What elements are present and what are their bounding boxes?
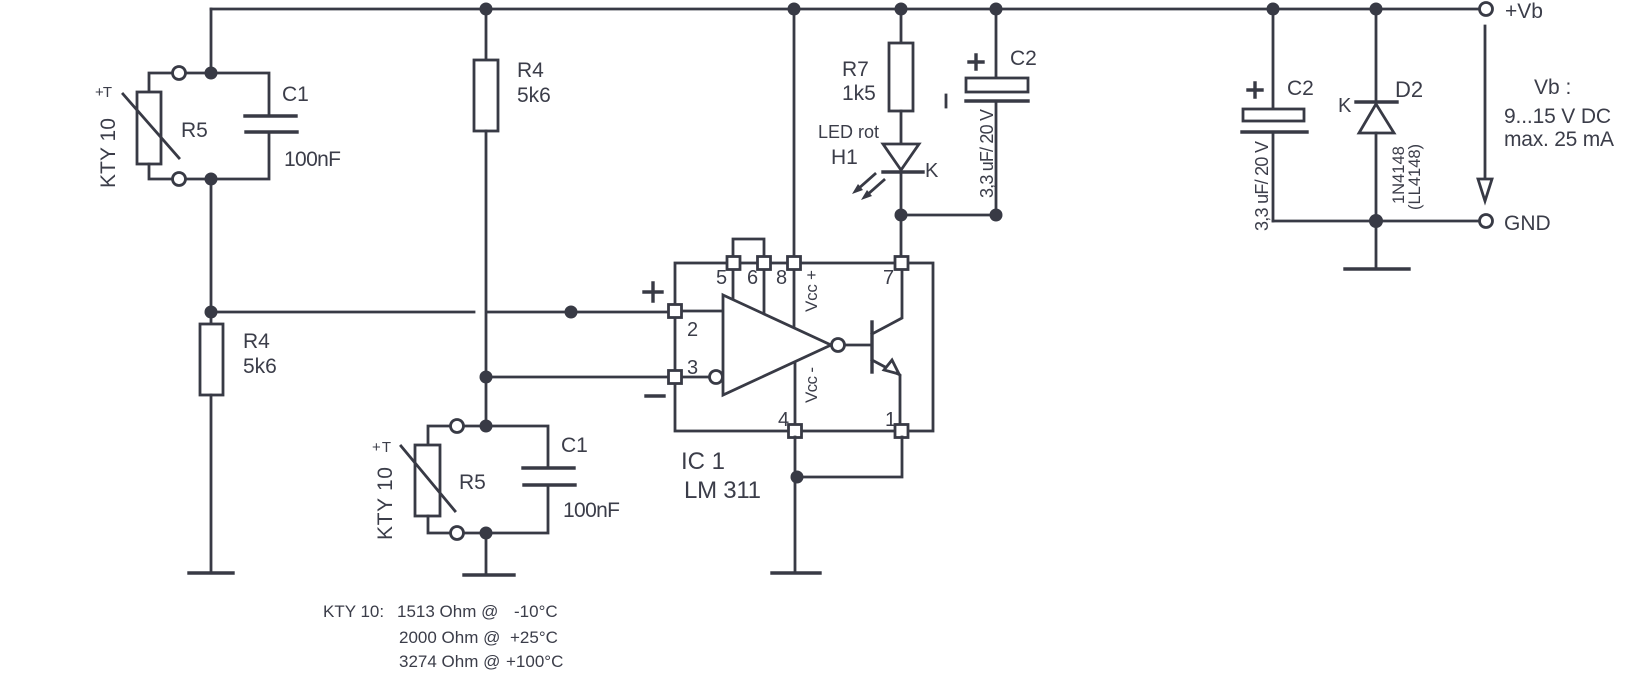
svg-text:2000 Ohm @: 2000 Ohm @	[399, 628, 500, 647]
wire strap pins 5-6	[733, 239, 764, 256]
wire R5 (2) bottom connection	[428, 516, 480, 533]
wire LED to node	[900, 172, 903, 215]
wire node to C2a bottom	[901, 214, 996, 217]
plus sign non-inverting	[644, 283, 662, 301]
label 3274 Ohm @	[399, 652, 500, 671]
svg-text:+25°C: +25°C	[510, 628, 558, 647]
node LED / pin 7	[895, 209, 908, 222]
node sensor 2 bottom	[480, 527, 493, 540]
plus sign C2b	[1248, 83, 1262, 97]
label 5k6 (lower left)	[243, 355, 277, 378]
output circle	[832, 339, 845, 352]
current direction arrow	[1478, 26, 1492, 201]
diode D2	[1356, 102, 1397, 221]
wire pin 2 to comparator input	[681, 310, 723, 313]
wire node to pin 7	[900, 215, 903, 256]
terminal GND	[1480, 215, 1493, 228]
svg-text:3,3 uF/ 20 V: 3,3 uF/ 20 V	[1252, 141, 1272, 231]
node sensor 2 top	[480, 420, 493, 433]
svg-text:+T: +T	[95, 84, 112, 101]
pin square 6	[758, 257, 771, 270]
wire +Vb top rail	[211, 8, 1480, 11]
svg-text:2: 2	[687, 319, 698, 341]
node GND D2	[1369, 214, 1383, 228]
wire pin 8 stub (Vcc+)	[793, 269, 796, 329]
terminal circle R5 (2) top	[451, 420, 464, 433]
label max. 25 mA	[1504, 128, 1614, 151]
wire from rail down to R5 top node	[210, 9, 213, 73]
emitter arrow	[884, 360, 899, 374]
label K (diode cathode)	[1338, 95, 1352, 117]
svg-text:R5: R5	[459, 471, 486, 494]
label D2	[1395, 77, 1423, 102]
input circle pin 3	[710, 371, 723, 384]
wire GND rail	[1273, 220, 1480, 223]
label C1 (left)	[282, 83, 309, 106]
svg-text:1k5: 1k5	[842, 82, 876, 105]
node R5 bottom	[205, 173, 218, 186]
wire pin 5 stub	[732, 269, 735, 300]
svg-text:R4: R4	[517, 59, 544, 82]
wire rail to R7	[900, 9, 903, 43]
svg-text:H1: H1	[831, 146, 858, 169]
svg-text:1513 Ohm @: 1513 Ohm @	[397, 602, 498, 621]
resistor R5 (KTY 10 sensor, left)	[123, 92, 179, 164]
svg-text:3,3 uF/ 20 V: 3,3 uF/ 20 V	[977, 109, 997, 198]
svg-text:max. 25 mA: max. 25 mA	[1504, 128, 1614, 151]
svg-text:+100°C: +100°C	[506, 652, 563, 671]
minus sign inverting	[646, 394, 664, 397]
svg-text:C1: C1	[282, 83, 309, 106]
svg-text:LED rot: LED rot	[818, 122, 879, 142]
transistor emitter to pin 1	[872, 360, 900, 425]
LED light arrow 1	[852, 174, 875, 194]
wire to pin 2 (with crossover gap)	[211, 311, 669, 314]
svg-text:C2: C2	[1287, 77, 1314, 100]
svg-text:KTY 10: KTY 10	[374, 467, 397, 540]
label KTY 10: table	[323, 602, 384, 621]
wire pin 1 to ground node	[795, 437, 902, 477]
svg-text:K: K	[1338, 95, 1352, 117]
wire rail to C2a	[995, 9, 998, 78]
wire pin 8 to +Vb rail	[793, 9, 796, 256]
node rail R7	[895, 3, 908, 16]
svg-text:K: K	[925, 160, 939, 182]
pin number 1	[885, 409, 896, 431]
capacitor C1 (left)	[211, 73, 297, 179]
pin square 3	[669, 371, 682, 384]
label C2 (right)	[1287, 77, 1314, 100]
svg-text:7: 7	[883, 267, 894, 289]
label 3,3 uF/ 20 V (right, rotated)	[1252, 141, 1272, 231]
node top rail R4 upper	[480, 3, 493, 16]
node rail pin 8	[788, 3, 801, 16]
label 100nF (left)	[284, 148, 341, 171]
svg-text:(LL4148): (LL4148)	[1406, 144, 1424, 210]
svg-text:KTY 10:: KTY 10:	[323, 602, 384, 621]
label 2000 Ohm @	[399, 628, 500, 647]
label C1 (middle)	[561, 434, 588, 457]
resistor R7	[889, 43, 913, 111]
label +Vb	[1505, 0, 1543, 23]
wire rail to D2	[1375, 9, 1378, 102]
pin number 5	[716, 267, 727, 289]
svg-text:IC 1: IC 1	[681, 448, 725, 475]
ground (middle sensor)	[464, 573, 514, 576]
wire D2 to ground	[1375, 221, 1378, 269]
label GND	[1504, 212, 1551, 235]
svg-text:3274 Ohm @: 3274 Ohm @	[399, 652, 500, 671]
svg-text:1: 1	[885, 409, 896, 431]
LED H1	[883, 144, 923, 172]
capacitor C2 (middle, electrolytic)	[966, 78, 1028, 215]
node rail C2a	[990, 3, 1003, 16]
wire to pin 3	[486, 376, 669, 379]
wire left node down to divider	[210, 179, 213, 324]
wire R5 bottom connection	[149, 164, 205, 179]
plus sign C2a	[969, 55, 983, 69]
wire pin 3 to input circle	[681, 376, 710, 379]
svg-text:GND: GND	[1504, 212, 1551, 235]
ground (right)	[1345, 267, 1409, 270]
wire pin 4 to ground	[794, 437, 797, 573]
pin number 4	[778, 409, 789, 431]
label Vb :	[1534, 76, 1571, 99]
stray mark I	[945, 95, 948, 107]
svg-text:Vcc -: Vcc -	[802, 367, 821, 403]
svg-text:R5: R5	[181, 119, 208, 142]
terminal circle R5 bottom	[173, 173, 186, 186]
wire rail to C2b	[1272, 9, 1275, 109]
wire R4 down through crossover to sensor node	[485, 131, 488, 426]
label 9...15 V DC	[1504, 105, 1611, 128]
svg-text:100nF: 100nF	[563, 499, 620, 522]
svg-text:-10°C: -10°C	[514, 602, 558, 621]
capacitor C1 (middle)	[486, 426, 575, 533]
pin square 1	[895, 425, 908, 438]
transistor collector to pin 7	[872, 269, 902, 334]
pin square 7	[895, 257, 908, 270]
node divider tap	[205, 306, 218, 319]
svg-text:6: 6	[747, 267, 758, 289]
svg-text:Vcc +: Vcc +	[802, 270, 821, 312]
node on pin 2 wire	[565, 306, 578, 319]
wire pin 6 stub	[763, 269, 766, 314]
label R7	[842, 58, 869, 81]
svg-text:D2: D2	[1395, 77, 1423, 102]
label IC 1	[681, 448, 725, 475]
label Vcc - (rotated)	[802, 367, 821, 403]
svg-text:3: 3	[687, 357, 698, 379]
label 1N4148 (rotated)	[1390, 146, 1408, 204]
pin number 3	[687, 357, 698, 379]
svg-text:100nF: 100nF	[284, 148, 341, 171]
node inverting tap	[480, 371, 493, 384]
pin number 6	[747, 267, 758, 289]
label R5 (left)	[181, 119, 208, 142]
svg-text:+T: +T	[372, 439, 391, 456]
svg-text:+Vb: +Vb	[1505, 0, 1543, 23]
svg-text:LM 311: LM 311	[684, 477, 761, 504]
svg-text:Vb :: Vb :	[1534, 76, 1571, 99]
pin square 4	[789, 425, 802, 438]
node C2a bottom	[990, 209, 1003, 222]
pin square 8	[788, 257, 801, 270]
terminal +Vb	[1480, 3, 1493, 16]
label R4 (upper middle)	[517, 59, 544, 82]
label R4 (lower left)	[243, 330, 270, 353]
wire R5 (2) top connection	[428, 426, 480, 445]
wire rail to R4 upper	[485, 9, 488, 60]
svg-text:R7: R7	[842, 58, 869, 81]
comparator triangle U1	[723, 295, 831, 395]
label H1	[831, 146, 858, 169]
node pin1/pin4 junction	[791, 471, 804, 484]
terminal circle R5 top	[173, 67, 186, 80]
label +T (left sensor)	[95, 84, 112, 101]
label K (LED cathode)	[925, 160, 939, 182]
label +25 C	[510, 628, 558, 647]
ground (IC)	[772, 571, 820, 574]
capacitor C2 (right, electrolytic)	[1242, 109, 1307, 221]
LED light arrow 2	[861, 180, 884, 200]
label LED rot	[818, 122, 879, 142]
node rail C2b	[1267, 3, 1280, 16]
label C2 (middle)	[1010, 47, 1037, 70]
node rail D2	[1370, 3, 1383, 16]
pin number 7	[883, 267, 894, 289]
label +T (middle sensor)	[372, 439, 391, 456]
label 100nF (middle)	[563, 499, 620, 522]
label LM 311	[684, 477, 761, 504]
pin square 5	[727, 257, 740, 270]
terminal circle R5 (2) bottom	[451, 527, 464, 540]
wire sensor 2 to ground	[485, 533, 488, 575]
label (LL4148) (rotated)	[1406, 144, 1424, 210]
op-amp IC1 LM311 package outline	[675, 263, 933, 431]
pin number 2	[687, 319, 698, 341]
pin number 8	[776, 267, 787, 289]
svg-text:8: 8	[776, 267, 787, 289]
label +100 C	[506, 652, 563, 671]
label -10 C	[514, 602, 558, 621]
ground (lower left)	[189, 571, 233, 574]
label 1k5	[842, 82, 876, 105]
resistor R4 (lower left)	[200, 324, 223, 395]
wire pin 4 stub (Vcc-)	[794, 362, 797, 425]
svg-text:4: 4	[778, 409, 789, 431]
svg-text:C2: C2	[1010, 47, 1037, 70]
label KTY 10 (left sensor, rotated)	[97, 118, 120, 188]
wire base of output transistor	[845, 344, 872, 347]
label KTY 10 (middle sensor, rotated)	[374, 467, 397, 540]
svg-text:R4: R4	[243, 330, 270, 353]
svg-text:KTY 10: KTY 10	[97, 118, 120, 188]
svg-text:C1: C1	[561, 434, 588, 457]
pin square 2	[669, 305, 682, 318]
svg-text:9...15 V DC: 9...15 V DC	[1504, 105, 1611, 128]
wire R4 to ground	[210, 395, 213, 573]
label Vcc + (rotated)	[802, 270, 821, 312]
transistor Q1 base bar	[870, 322, 873, 372]
label 5k6 (upper middle)	[517, 84, 551, 107]
svg-text:5k6: 5k6	[517, 84, 551, 107]
wire R7 to LED	[900, 111, 903, 172]
svg-text:5k6: 5k6	[243, 355, 277, 378]
resistor R4 (upper middle)	[474, 60, 498, 131]
svg-text:5: 5	[716, 267, 727, 289]
wire R5 top connection	[149, 73, 205, 92]
node top rail / left branch	[205, 67, 218, 80]
label R5 (middle)	[459, 471, 486, 494]
label 1513 Ohm @	[397, 602, 498, 621]
resistor R5 (KTY 10 sensor, middle)	[401, 445, 455, 516]
label 3,3 uF/ 20 V (middle, rotated)	[977, 109, 997, 198]
